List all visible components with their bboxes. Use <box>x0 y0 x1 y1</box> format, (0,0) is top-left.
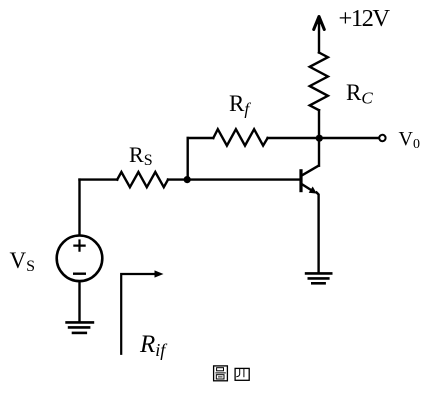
wire output rail <box>188 137 379 139</box>
resistor RS <box>117 172 168 187</box>
caption glyph 四 <box>235 368 249 380</box>
ground (emitter) <box>306 273 331 283</box>
source VS <box>57 235 103 281</box>
ground (VS) <box>67 322 93 333</box>
resistor RC <box>310 53 328 111</box>
wire Rf left drop <box>186 138 188 180</box>
supply arrow +12V <box>314 15 325 53</box>
resistor Rf <box>213 129 267 145</box>
wire VS top <box>78 180 80 235</box>
node base junction <box>184 176 191 183</box>
node collector junction <box>316 135 323 142</box>
wire collector vertical <box>318 110 320 166</box>
label RS <box>129 142 153 170</box>
label RC <box>346 80 373 109</box>
output terminal circle <box>379 135 385 141</box>
label Rf <box>229 91 249 120</box>
caption glyph 圖 <box>214 366 228 381</box>
transistor Q1 <box>301 166 319 273</box>
wire base rail <box>80 178 301 180</box>
label +12V <box>339 5 389 33</box>
label VS <box>10 248 36 276</box>
label Rif <box>140 331 165 361</box>
label V0 <box>399 128 420 153</box>
wire VS bottom <box>78 282 80 321</box>
Rif measurement arrow <box>121 270 163 353</box>
